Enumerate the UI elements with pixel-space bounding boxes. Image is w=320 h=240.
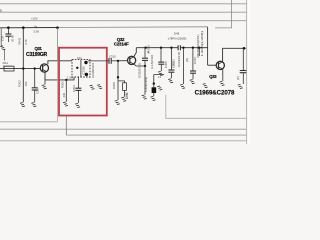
svg-text:3.3K: 3.3K bbox=[33, 30, 39, 34]
svg-text:C303(C309): C303(C309) bbox=[144, 77, 148, 92]
node J1 bbox=[7, 26, 10, 29]
wire Q33 base bbox=[208, 64, 217, 66]
connector CN bbox=[0, 46, 5, 50]
page right edge bbox=[246, 0, 248, 144]
node J4 bbox=[22, 67, 24, 69]
svg-text:10K: 10K bbox=[24, 81, 28, 86]
capacitor C48 series on rail bbox=[177, 45, 179, 50]
wire to bottom bus bbox=[65, 116, 67, 135]
svg-text:+10V: +10V bbox=[31, 17, 38, 21]
node rail dots bbox=[144, 47, 146, 49]
svg-text:x78P0+Q36(E): x78P0+Q36(E) bbox=[168, 36, 187, 40]
svg-text:C305: C305 bbox=[164, 61, 168, 68]
resistor R311 bbox=[144, 48, 146, 58]
capacitor C304 bbox=[75, 77, 81, 103]
frame line bottom 2 bbox=[66, 134, 246, 136]
capacitor C314 bbox=[190, 48, 196, 79]
node box pin 2 bbox=[85, 73, 88, 76]
transistor Q32 bbox=[128, 56, 136, 64]
node J5 bbox=[34, 67, 36, 69]
node J3 bbox=[56, 26, 59, 29]
ground bbox=[20, 103, 25, 107]
svg-text:L1: L1 bbox=[158, 75, 162, 79]
capacitor C310 coupling bbox=[88, 58, 128, 64]
node J6 bbox=[65, 79, 67, 81]
svg-text:X3199CR01: X3199CR01 bbox=[91, 62, 95, 78]
svg-text:240: 240 bbox=[62, 92, 66, 97]
svg-text:R311(R312): R311(R312) bbox=[137, 63, 141, 78]
wire Q31 emitter bbox=[45, 72, 74, 80]
resonator internals bbox=[80, 60, 82, 77]
wire Q32 collector bbox=[134, 48, 137, 57]
inductor L305 bbox=[198, 48, 200, 56]
resistor R308 bbox=[117, 61, 119, 100]
block boundary right bbox=[166, 95, 247, 119]
rail Vcc right segment bbox=[181, 47, 208, 49]
svg-text:35.06: 35.06 bbox=[10, 35, 14, 42]
page margin right bbox=[247, 0, 250, 144]
svg-text:Q33: Q33 bbox=[209, 74, 217, 79]
capacitor C316 bbox=[240, 48, 247, 84]
svg-text:D48: D48 bbox=[174, 32, 180, 36]
frame line top 3 bbox=[0, 20, 247, 22]
ground emitter bbox=[44, 80, 46, 85]
wire feed down to rail bbox=[207, 27, 209, 65]
ground bbox=[31, 103, 36, 107]
svg-text:R041: R041 bbox=[18, 37, 22, 44]
svg-text:C3199: C3199 bbox=[81, 66, 85, 75]
svg-text:Q31: Q31 bbox=[35, 46, 43, 51]
ground small bbox=[203, 84, 208, 88]
node J8 bbox=[117, 76, 119, 78]
svg-text:C472: C472 bbox=[124, 92, 128, 99]
rail Vcc left segment bbox=[136, 47, 178, 49]
transistor Q33 bbox=[216, 61, 224, 69]
svg-text:C310: C310 bbox=[109, 54, 116, 58]
svg-text:F01: F01 bbox=[77, 56, 82, 60]
wire Q31 collector bbox=[48, 61, 72, 64]
svg-text:R302: R302 bbox=[18, 80, 22, 87]
wire Q33 emitter bbox=[222, 69, 224, 81]
svg-text:R306: R306 bbox=[60, 81, 64, 88]
wire supply extension bbox=[58, 26, 208, 29]
node box pin 1 bbox=[84, 61, 87, 64]
svg-text:(R310): (R310) bbox=[146, 45, 150, 54]
wire vertical x231 bbox=[231, 0, 233, 28]
svg-text:R314(R315): R314(R315) bbox=[177, 52, 181, 67]
block boundary left vertical bbox=[56, 28, 58, 61]
node Vx label bbox=[31, 17, 39, 34]
ground pair inside box bbox=[90, 85, 95, 89]
frame line top 1 bbox=[0, 3, 247, 5]
node box pin 3 bbox=[76, 67, 78, 69]
svg-text:C304: C304 bbox=[72, 85, 76, 92]
frame line bottom 1 bbox=[0, 128, 247, 130]
wire supply top bbox=[0, 27, 58, 29]
svg-text:C3199GR: C3199GR bbox=[26, 52, 48, 58]
svg-text:1.5K: 1.5K bbox=[67, 76, 73, 80]
resistor R309 bbox=[118, 81, 125, 83]
svg-text:(C): (C) bbox=[236, 76, 240, 80]
wire base Q31 bbox=[0, 68, 40, 70]
capacitor C313 bbox=[168, 48, 174, 79]
node J9 bbox=[243, 47, 246, 50]
svg-text:C307: C307 bbox=[36, 87, 40, 94]
transistor Q31 bbox=[40, 64, 48, 72]
svg-text:(R): (R) bbox=[185, 58, 189, 62]
resistor R306 bbox=[65, 80, 67, 102]
wire Q32 emitter bbox=[134, 64, 145, 66]
block boundary left bottom bbox=[0, 121, 57, 123]
svg-text:C2314F: C2314F bbox=[114, 42, 129, 47]
svg-text:L305(L306): L305(L306) bbox=[200, 31, 204, 56]
resonator X301 dashed box bbox=[72, 60, 90, 77]
wire top right segment bbox=[215, 27, 232, 29]
svg-text:(L1 A)C302: (L1 A)C302 bbox=[150, 54, 154, 69]
resistor R314 bbox=[182, 48, 184, 84]
svg-text:B: B bbox=[0, 9, 2, 13]
frame line bottom 3 bbox=[0, 140, 247, 142]
resistor R301 bbox=[22, 28, 24, 103]
svg-text:C313: C313 bbox=[171, 59, 175, 66]
svg-text:4.7K: 4.7K bbox=[24, 39, 28, 45]
svg-text:C1969&C2078: C1969&C2078 bbox=[195, 90, 235, 97]
node emitter junction bbox=[144, 65, 146, 67]
node J7 bbox=[117, 60, 119, 62]
resistor R313 bbox=[158, 48, 164, 71]
diode DA1 bbox=[4, 66, 14, 71]
svg-text:R308: R308 bbox=[112, 82, 116, 89]
highlight red box bbox=[59, 48, 107, 116]
capacitor C307 bbox=[32, 69, 38, 103]
capacitor C301 bbox=[5, 28, 11, 42]
frame line top 2 bbox=[0, 11, 247, 13]
wire left edge stub bbox=[0, 28, 2, 47]
node J2 bbox=[22, 26, 25, 29]
ground extra bbox=[157, 86, 162, 90]
wire Q33 collector bbox=[223, 48, 246, 62]
